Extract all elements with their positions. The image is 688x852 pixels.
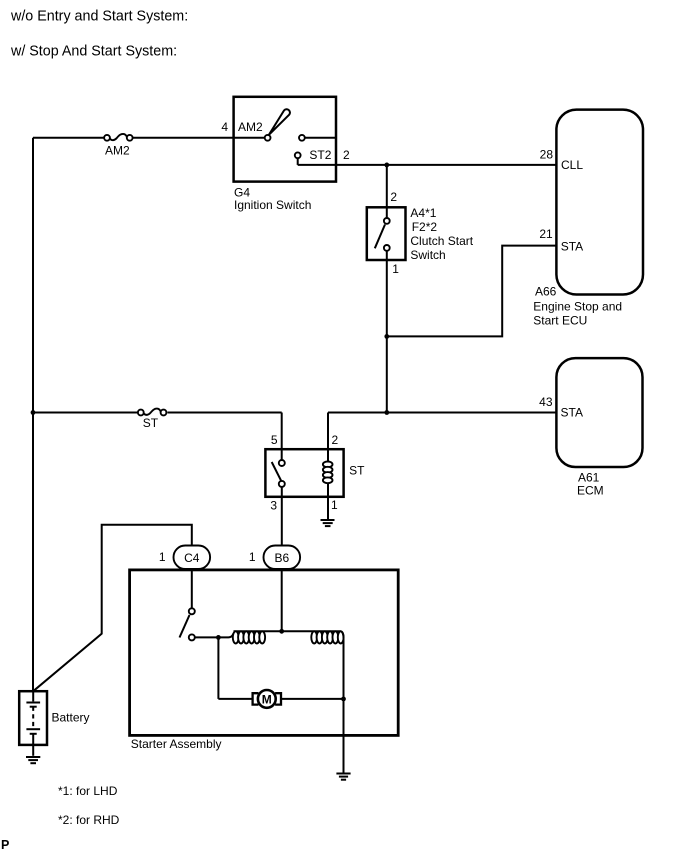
- clutch lower contact: [384, 245, 390, 251]
- ground (battery): [26, 757, 40, 763]
- svg-text:2: 2: [390, 190, 397, 204]
- svg-text:ST2: ST2: [309, 148, 331, 162]
- svg-text:Battery: Battery: [52, 710, 90, 724]
- wire: coil exit bend: [341, 631, 344, 699]
- svg-text:Ignition Switch: Ignition Switch: [234, 198, 311, 212]
- wire: AM2 feed horizontal y=137.8: [33, 137, 265, 139]
- svg-text:Switch: Switch: [410, 248, 445, 262]
- wire: main horizontal left segment y=412.5: [33, 412, 282, 414]
- svg-text:B6: B6: [274, 551, 289, 565]
- svg-text:Starter Assembly: Starter Assembly: [131, 737, 222, 751]
- svg-text:2: 2: [332, 433, 339, 447]
- node: junction main rail left: [31, 410, 36, 415]
- svg-text:w/ Stop And Start System:: w/ Stop And Start System:: [10, 43, 177, 59]
- connector B6: [264, 546, 301, 570]
- clutch lever: [375, 225, 385, 249]
- wire: coil line y=631.3: [234, 630, 342, 632]
- fuse ST: [138, 409, 167, 416]
- starter switch upper contact: [189, 608, 195, 614]
- svg-text:C4: C4: [184, 551, 200, 565]
- wire: clutch bottom vertical: [386, 251, 388, 413]
- svg-text:AM2: AM2: [105, 144, 130, 158]
- ECU A66 body: [556, 110, 643, 295]
- ECM A61 body: [556, 358, 642, 467]
- relay coil ST: [323, 449, 333, 497]
- relay upper contact: [279, 460, 285, 466]
- svg-text:AM2: AM2: [238, 120, 263, 134]
- wire: circle2 to box edge: [305, 137, 336, 139]
- node: junction coil/motor: [216, 635, 221, 640]
- svg-text:ECM: ECM: [577, 484, 604, 498]
- clutch start switch box A4/F2: [367, 207, 406, 260]
- pull-in coil L1: [233, 631, 265, 643]
- svg-text:A4*1: A4*1: [410, 206, 436, 220]
- svg-text:1: 1: [331, 498, 338, 512]
- ignition switch box G4: [234, 97, 336, 182]
- relay lever: [272, 462, 281, 481]
- svg-text:*2: for RHD: *2: for RHD: [58, 813, 120, 827]
- svg-text:*1: for LHD: *1: for LHD: [58, 784, 118, 798]
- svg-text:STA: STA: [561, 240, 583, 254]
- wire: motor to junction: [281, 698, 344, 700]
- svg-text:Clutch Start: Clutch Start: [410, 234, 473, 248]
- svg-text:CLL: CLL: [561, 158, 583, 172]
- node: junction motor/ground: [341, 697, 346, 702]
- wire: ST2 to CLL horizontal y=164.9: [298, 164, 557, 166]
- wire: relay pin3 vertical to B6: [281, 487, 283, 546]
- svg-text:1: 1: [249, 550, 256, 564]
- node: junction B6/coils: [279, 629, 284, 634]
- svg-text:21: 21: [539, 227, 553, 241]
- wire: ST2 drop: [297, 158, 299, 165]
- ignition circle 2: [299, 135, 305, 141]
- svg-text:w/o Entry and Start System:: w/o Entry and Start System:: [10, 8, 188, 24]
- fuse AM2: [104, 134, 132, 141]
- ground (relay): [321, 520, 335, 526]
- svg-text:P: P: [1, 838, 9, 852]
- wire: jog into coil 1: [218, 634, 233, 638]
- wire: STA branch to A66: [387, 246, 557, 337]
- ground (starter): [336, 774, 350, 780]
- svg-text:F2*2: F2*2: [412, 220, 438, 234]
- starter assembly box: [130, 570, 399, 736]
- node: junction ST2/clutch: [384, 163, 389, 168]
- ignition contact circle: [265, 135, 271, 141]
- svg-text:ST: ST: [143, 416, 159, 430]
- wire: B6 into coils: [281, 569, 283, 631]
- svg-text:1: 1: [392, 262, 399, 276]
- wire: pin2 drop: [327, 413, 329, 450]
- wire: relay pin1 to ground: [327, 497, 329, 519]
- ST2 contact circle: [295, 152, 301, 158]
- svg-text:43: 43: [539, 395, 553, 409]
- svg-text:A61: A61: [578, 471, 600, 485]
- wire: left vertical rail x=33: [32, 138, 34, 691]
- svg-text:1: 1: [159, 550, 166, 564]
- svg-text:2: 2: [343, 148, 350, 162]
- wire: into motor: [218, 698, 251, 700]
- wire: battery feed branch: [33, 525, 192, 691]
- wire: switch to coil node: [195, 636, 219, 638]
- starter switch lower contact: [189, 634, 195, 640]
- svg-text:ST: ST: [349, 464, 365, 478]
- svg-text:M: M: [262, 693, 272, 707]
- svg-text:A66: A66: [535, 285, 557, 299]
- hold-in coil L2: [311, 631, 343, 643]
- starter switch lever: [180, 615, 190, 638]
- wire: clutch vertical x=386.8: [386, 165, 388, 218]
- wire: main horizontal right segment y=412.5: [328, 412, 556, 414]
- svg-text:Start ECU: Start ECU: [533, 313, 587, 327]
- wire: motor branch down: [217, 637, 219, 699]
- node: junction STA branch: [384, 334, 389, 339]
- clutch upper contact: [384, 218, 390, 224]
- battery: [19, 691, 47, 756]
- svg-text:4: 4: [221, 120, 228, 134]
- starter relay box: [265, 449, 343, 497]
- svg-text:28: 28: [540, 147, 554, 161]
- wire: C4 into starter switch: [191, 569, 193, 608]
- relay lower contact: [279, 481, 285, 487]
- svg-text:Engine Stop and: Engine Stop and: [533, 300, 622, 314]
- wire: starter ground drop: [343, 699, 345, 773]
- ignition lever: [269, 109, 290, 135]
- svg-text:STA: STA: [561, 406, 583, 420]
- svg-text:3: 3: [270, 499, 277, 513]
- wire: pin5 drop: [281, 413, 283, 450]
- connector C4: [174, 546, 211, 570]
- motor M: [253, 690, 281, 708]
- svg-text:5: 5: [271, 433, 278, 447]
- svg-text:G4: G4: [234, 185, 250, 199]
- wire: pin5 into contact: [281, 449, 283, 460]
- node: junction main rail center: [384, 410, 389, 415]
